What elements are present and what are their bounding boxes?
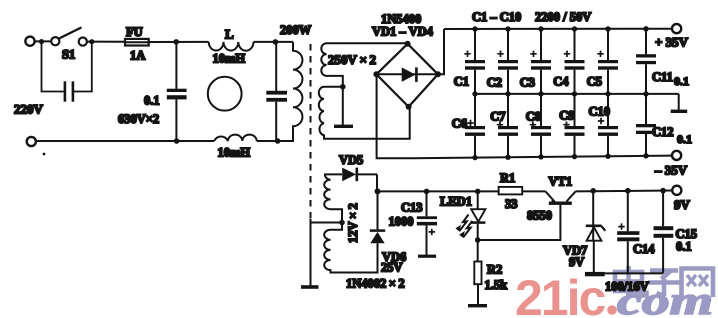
svg-text:0.1: 0.1 <box>676 240 692 254</box>
mid rail ground <box>475 93 679 95</box>
svg-text:200W: 200W <box>280 23 312 37</box>
svg-text:C9: C9 <box>559 109 574 123</box>
node E junction <box>273 39 279 45</box>
capacitor C10 <box>607 94 609 126</box>
svg-text:C1 – C10: C1 – C10 <box>472 10 521 24</box>
node C junction <box>173 39 179 45</box>
capacitor C5 <box>607 29 609 60</box>
LED arrows <box>459 215 468 232</box>
capacitor C12 <box>645 94 647 124</box>
svg-text:C14: C14 <box>633 242 655 256</box>
speck <box>43 153 46 156</box>
resistor R2 <box>477 240 479 262</box>
svg-text:630V×2: 630V×2 <box>118 112 159 126</box>
diode VD6 <box>377 191 379 229</box>
svg-text:0.1: 0.1 <box>677 132 692 146</box>
svg-text:10mH: 10mH <box>213 52 246 66</box>
transformer secondary 12Vx2 upper <box>324 174 342 222</box>
fuse FU 1A <box>125 39 149 46</box>
choke core circle <box>208 77 242 111</box>
svg-text:1.5k: 1.5k <box>485 278 508 292</box>
wire main 9V line <box>378 190 499 192</box>
svg-text:21ic: 21ic <box>515 270 606 318</box>
svg-text:C6: C6 <box>452 117 467 131</box>
node G center tap <box>340 84 346 90</box>
wire bridge minus to bottom rail <box>377 74 412 158</box>
svg-text:C13: C13 <box>401 201 423 215</box>
capacitor C3 <box>540 29 542 60</box>
transformer core dashed <box>310 44 312 219</box>
transformer secondary 250Vx2 lower <box>319 87 410 139</box>
svg-text:VD1 – VD4: VD1 – VD4 <box>372 25 434 39</box>
node J base node <box>475 237 481 243</box>
svg-text:1000: 1000 <box>389 215 414 229</box>
switch S1 <box>51 37 59 45</box>
capacitor C11 <box>645 29 647 54</box>
center tap ground wire <box>342 87 344 125</box>
svg-text:+ 35V: + 35V <box>655 35 689 50</box>
svg-text:25V: 25V <box>381 261 403 275</box>
watermark dot <box>607 305 617 315</box>
capacitor X2 right <box>275 42 277 91</box>
capacitor across S1 <box>42 42 92 92</box>
chassis ground <box>301 285 319 289</box>
svg-text:9V: 9V <box>674 197 691 212</box>
svg-text:0.1: 0.1 <box>674 74 689 88</box>
inductor L 10mH top <box>209 42 254 51</box>
svg-text:33: 33 <box>505 197 518 211</box>
terminal -35V <box>672 151 681 160</box>
node F junction <box>275 138 281 144</box>
svg-text:C8: C8 <box>526 110 541 124</box>
svg-text:100/16V: 100/16V <box>605 280 649 294</box>
watermark char zi <box>648 271 680 297</box>
core ground wire <box>310 219 312 286</box>
wire bottom <box>36 140 214 142</box>
bridge rectifier VD1-VD4 1N5400 <box>376 44 438 107</box>
svg-text:VT1: VT1 <box>549 175 573 189</box>
svg-text:R1: R1 <box>500 171 515 185</box>
capacitor C9 <box>574 94 576 126</box>
capacitor C1 <box>474 29 476 60</box>
svg-text:C5: C5 <box>587 75 602 89</box>
capacitor C4 <box>574 29 576 60</box>
transformer secondary 250Vx2 upper <box>321 43 407 89</box>
terminal input bottom <box>27 137 36 146</box>
svg-text:C12: C12 <box>652 125 674 139</box>
bottom rail -35V <box>412 156 672 159</box>
capacitor C13 <box>424 189 430 195</box>
inductor 10mH bottom <box>214 135 256 141</box>
svg-text:220V: 220V <box>14 102 44 117</box>
wire <box>35 40 51 42</box>
svg-text:C1: C1 <box>454 75 469 89</box>
svg-text:FU: FU <box>126 25 143 39</box>
capacitor C2 <box>507 29 509 60</box>
svg-text:9V: 9V <box>569 255 584 269</box>
terminal 9V <box>672 186 681 195</box>
svg-text:0.1: 0.1 <box>144 94 160 108</box>
svg-text:12V × 2: 12V × 2 <box>346 203 360 243</box>
transformer T1 primary <box>278 42 303 141</box>
wire output 9V <box>576 190 672 193</box>
svg-text:C11: C11 <box>652 70 673 84</box>
svg-text:VD5: VD5 <box>339 153 363 167</box>
top rail +35V <box>444 28 672 30</box>
capacitor C14 <box>625 188 631 194</box>
svg-text:C4: C4 <box>553 75 569 89</box>
svg-text:8550: 8550 <box>527 209 552 223</box>
svg-text:C2: C2 <box>487 76 502 90</box>
terminal input top <box>25 37 34 46</box>
svg-text:1N4002 × 2: 1N4002 × 2 <box>346 277 405 291</box>
center tap wire to core ground <box>311 222 343 224</box>
wire <box>87 41 125 43</box>
node I rectifier output <box>375 188 381 194</box>
svg-text:L: L <box>225 27 234 42</box>
svg-text:250V × 2: 250V × 2 <box>328 52 376 67</box>
capacitor 0.1 630Vx2 <box>175 42 177 89</box>
wire <box>149 41 209 43</box>
svg-text:10mH: 10mH <box>218 146 251 160</box>
watermark char wang <box>682 269 714 298</box>
node H center tap <box>339 220 345 226</box>
svg-text:C7: C7 <box>490 110 505 124</box>
svg-text:1A: 1A <box>130 49 145 63</box>
watermark char dian <box>615 266 647 296</box>
svg-text:LED1: LED1 <box>440 195 472 209</box>
capacitor C15 <box>660 188 666 194</box>
ground rail bottom right <box>593 272 663 274</box>
svg-text:C10: C10 <box>588 105 610 119</box>
resistor R1 <box>499 187 523 195</box>
ground <box>334 125 353 128</box>
node B junction <box>89 39 94 44</box>
node A junction <box>39 39 44 44</box>
node D junction <box>174 138 180 144</box>
terminal +35V <box>672 24 681 33</box>
svg-text:R2: R2 <box>487 263 502 277</box>
svg-text:2200 / 50V: 2200 / 50V <box>535 10 591 24</box>
wire bridge plus to top rail <box>438 29 444 74</box>
mid rail right ground <box>678 94 680 110</box>
capacitor C7 <box>507 94 509 126</box>
wire base <box>478 205 561 240</box>
svg-text:S1: S1 <box>62 48 75 62</box>
svg-text:– 35V: – 35V <box>654 163 688 178</box>
capacitor C8 <box>540 94 542 126</box>
zener VD7 <box>590 188 596 194</box>
svg-text:C3: C3 <box>520 76 535 90</box>
transformer secondary 12Vx2 lower <box>324 223 377 273</box>
capacitor C6 <box>474 94 476 126</box>
